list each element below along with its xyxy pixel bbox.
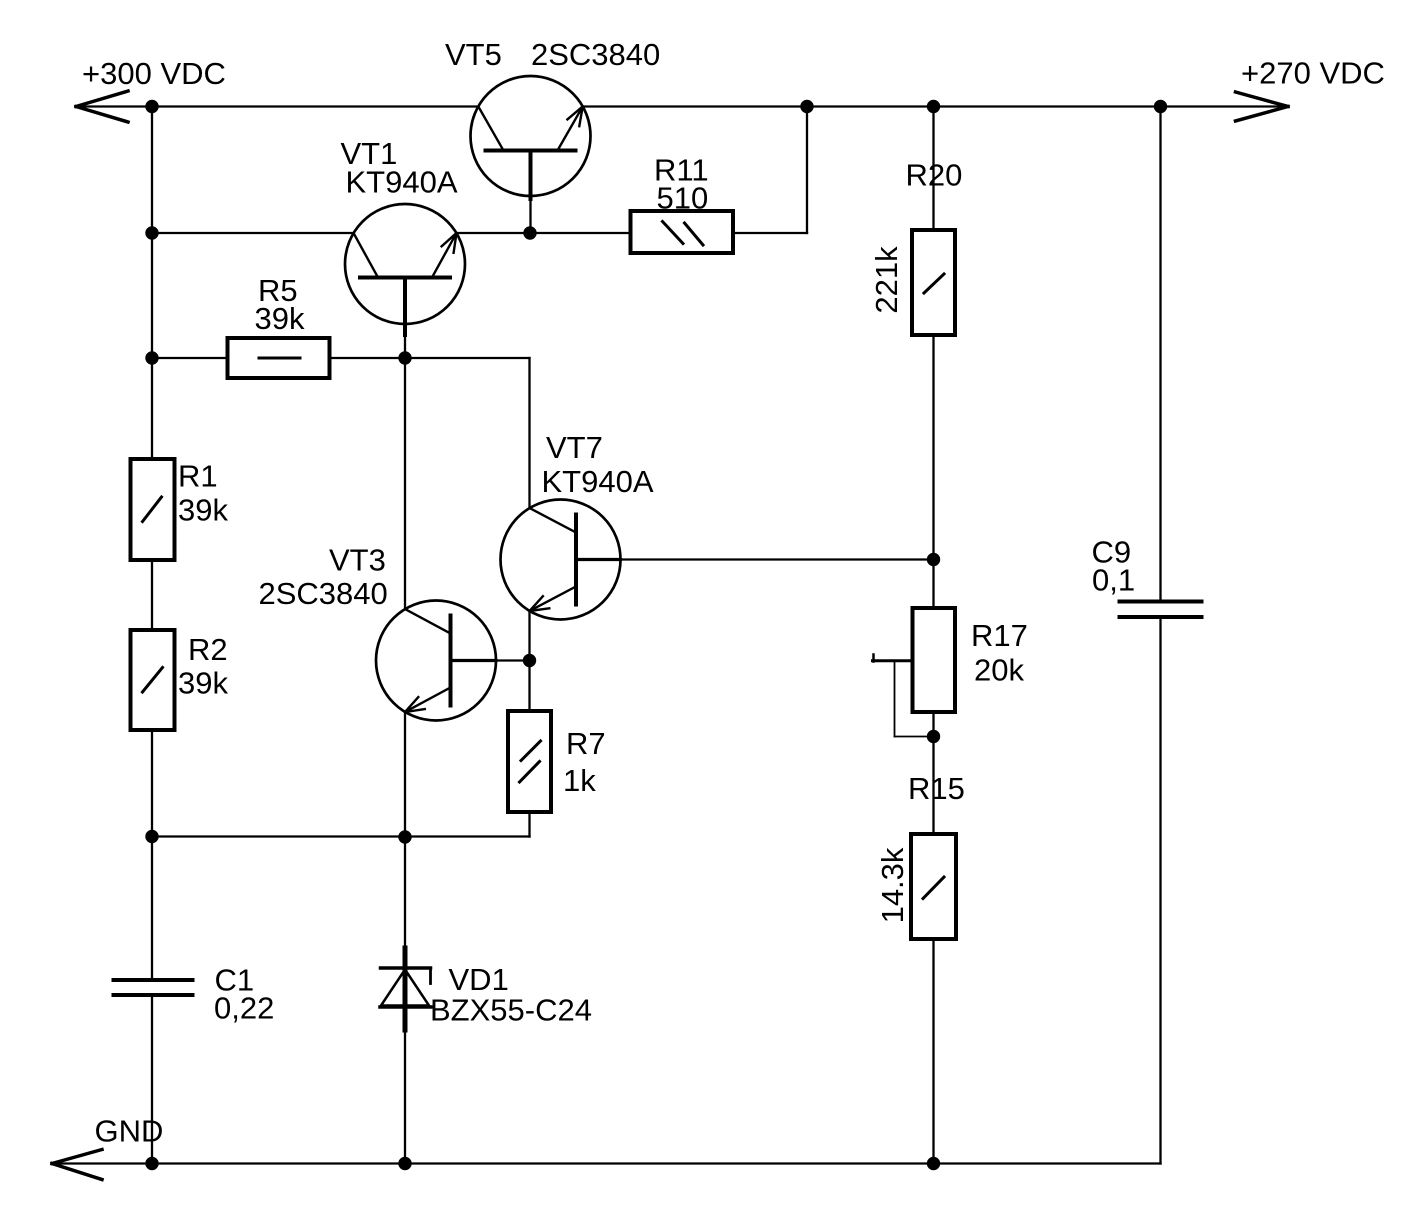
node R20 branch on top rail [927, 100, 940, 113]
node VT1 base row at left rail [145, 226, 158, 239]
wire R20 top lead [932, 107, 934, 231]
svg-text:KT940A: KT940A [542, 464, 654, 499]
svg-text:14.3k: 14.3k [875, 847, 910, 923]
node VT3 emitter rail [398, 830, 411, 843]
node R5 right / VT1 base [398, 351, 411, 364]
wire R5 row left [152, 357, 228, 359]
node R11 branch on top rail [800, 100, 813, 113]
wire node to R17 top [932, 560, 934, 609]
wire VT1 base node down to VT3 collector [404, 358, 406, 609]
wire VD1 top lead [404, 837, 406, 950]
node ground rail at left rail [145, 1157, 158, 1170]
resistor R7 [508, 711, 551, 812]
wire VT3 emitter down to node [404, 712, 406, 837]
svg-text:2SC3840: 2SC3840 [531, 37, 660, 72]
wire C9 top lead [1159, 107, 1161, 600]
node VT3 base / VT7 emitter / R7 [523, 654, 536, 667]
node VD1 at ground rail [398, 1157, 411, 1170]
svg-text:0,1: 0,1 [1092, 563, 1135, 598]
wire emitter rail to left [152, 835, 530, 837]
svg-text:+300 VDC: +300 VDC [82, 56, 226, 91]
node R17 wiper / R15 [927, 730, 940, 743]
wire C9 bottom lead to ground rail [1159, 619, 1161, 1164]
svg-text:39k: 39k [178, 666, 228, 701]
svg-text:0,22: 0,22 [214, 991, 274, 1026]
terminal arrow +270 VDC [1236, 92, 1289, 121]
wire left rail between R1 and R2 [151, 560, 153, 630]
wire top rail left segment [76, 105, 478, 107]
wire R11 right to corner [733, 232, 807, 234]
wire corner down to VT7 collector [528, 358, 530, 508]
resistor R20 [912, 230, 955, 335]
wire node to corner toward VT7 [405, 357, 530, 359]
svg-text:BZX55-C24: BZX55-C24 [430, 993, 592, 1028]
svg-text:R17: R17 [971, 618, 1028, 653]
wire R17 bottom to node [932, 712, 934, 737]
node VT5 base / VT1 emitter [523, 226, 536, 239]
wire top rail right segment [583, 105, 1288, 107]
resistor R1 [131, 459, 175, 560]
zener diode VD1 [380, 948, 431, 1030]
node R15 at ground rail [927, 1157, 940, 1170]
svg-text:1k: 1k [563, 763, 596, 798]
node R5 row at left rail [145, 351, 158, 364]
transistor VT3 [376, 601, 496, 721]
resistor R11 [631, 211, 734, 253]
wire R5 right to node [330, 357, 406, 359]
wire corner up to top rail [806, 107, 808, 234]
wire VD1 bottom lead [404, 1028, 406, 1164]
wire VT3 base to node [496, 659, 530, 661]
wire VT1 base lead thin [404, 335, 406, 358]
resistor R5 [228, 338, 330, 378]
svg-text:R20: R20 [906, 158, 963, 193]
svg-text:VT5: VT5 [445, 37, 502, 72]
svg-text:R7: R7 [566, 726, 606, 761]
terminal arrow GND [52, 1150, 102, 1180]
wire R20 bottom to node [932, 335, 934, 560]
node top rail at left column [145, 100, 158, 113]
wire R15 bottom to ground rail [932, 939, 934, 1164]
wire C1 to ground rail [151, 997, 153, 1164]
svg-text:VT3: VT3 [329, 543, 386, 578]
wire node to R15 top [932, 737, 934, 835]
node C9 branch on top rail [1154, 100, 1167, 113]
wire VT7 emitter down to node [528, 611, 530, 661]
wire left rail upper [151, 107, 153, 460]
wire R7 bottom to corner [528, 812, 530, 837]
transistor VT7 [501, 500, 621, 620]
capacitor C1 [114, 980, 193, 995]
svg-text:R1: R1 [178, 459, 218, 494]
wire VT1 emitter to VT5 base node to R11 [457, 232, 631, 234]
node emitter rail at left rail [145, 830, 158, 843]
svg-text:R2: R2 [188, 632, 228, 667]
wire VT5 base lead thin [529, 199, 531, 233]
resistor R15 [911, 834, 956, 939]
wire node down to R7 [528, 661, 530, 712]
svg-text:KT940A: KT940A [346, 165, 458, 200]
terminal arrow +300 VDC [76, 91, 128, 122]
resistor R2 [131, 630, 175, 730]
svg-text:221k: 221k [869, 246, 904, 314]
wire VT1 base row left [152, 232, 354, 234]
node VT7 base / R20 / R17 [927, 553, 940, 566]
svg-text:39k: 39k [255, 301, 305, 336]
svg-text:+270 VDC: +270 VDC [1241, 56, 1385, 91]
svg-text:39k: 39k [178, 493, 228, 528]
potentiometer R17 [873, 608, 956, 737]
svg-text:VT7: VT7 [546, 430, 603, 465]
transistor VT1 [345, 204, 465, 335]
wire bottom ground rail [52, 1162, 1161, 1164]
wire VT7 base to divider node [621, 558, 934, 560]
capacitor C9 [1120, 602, 1202, 618]
svg-text:2SC3840: 2SC3840 [259, 576, 388, 611]
transistor VT5 [471, 76, 591, 199]
svg-text:510: 510 [657, 181, 709, 216]
svg-text:R15: R15 [908, 771, 965, 806]
wire left rail R2 to C1 [151, 730, 153, 978]
svg-text:20k: 20k [974, 653, 1024, 688]
